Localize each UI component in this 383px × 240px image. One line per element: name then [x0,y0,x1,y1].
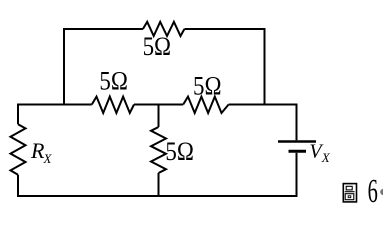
wire top-right segment [184,29,264,105]
battery VX short plate [289,150,307,153]
wire right vertical lower (from battery) [296,153,298,196]
wire middle-row right [229,104,297,106]
caption partial mark at right edge [380,189,383,195]
caption character TU (figure) hand-drawn [343,184,356,202]
svg-text:5Ω: 5Ω [193,72,222,101]
svg-text:5Ω: 5Ω [165,137,194,166]
battery VX long plate [278,140,316,142]
resistor R-mid-right (5 ohm, middle row right) [183,97,228,113]
svg-text:6: 6 [368,173,378,211]
svg-text:X: X [321,150,331,165]
resistor R-mid-vert (5 ohm, middle branch) [151,127,166,173]
svg-text:5Ω: 5Ω [143,32,172,61]
wire left vertical lower [17,175,19,196]
wire top-left segment [64,29,143,105]
wire left vertical upper [17,104,19,125]
resistor R-top (5 ohm, top branch) [143,22,185,36]
wire right vertical upper (to battery) [296,104,298,141]
resistor R-mid-left (5 ohm, middle row left) [92,97,134,113]
wire middle-row center [134,104,183,106]
wire middle-row left [18,104,92,106]
svg-text:X: X [43,151,53,166]
wire bottom [17,195,298,197]
svg-text:5Ω: 5Ω [99,67,128,96]
wire middle vertical upper [158,105,160,128]
wire middle vertical lower [158,173,160,196]
resistor RX (left branch) [11,124,26,175]
